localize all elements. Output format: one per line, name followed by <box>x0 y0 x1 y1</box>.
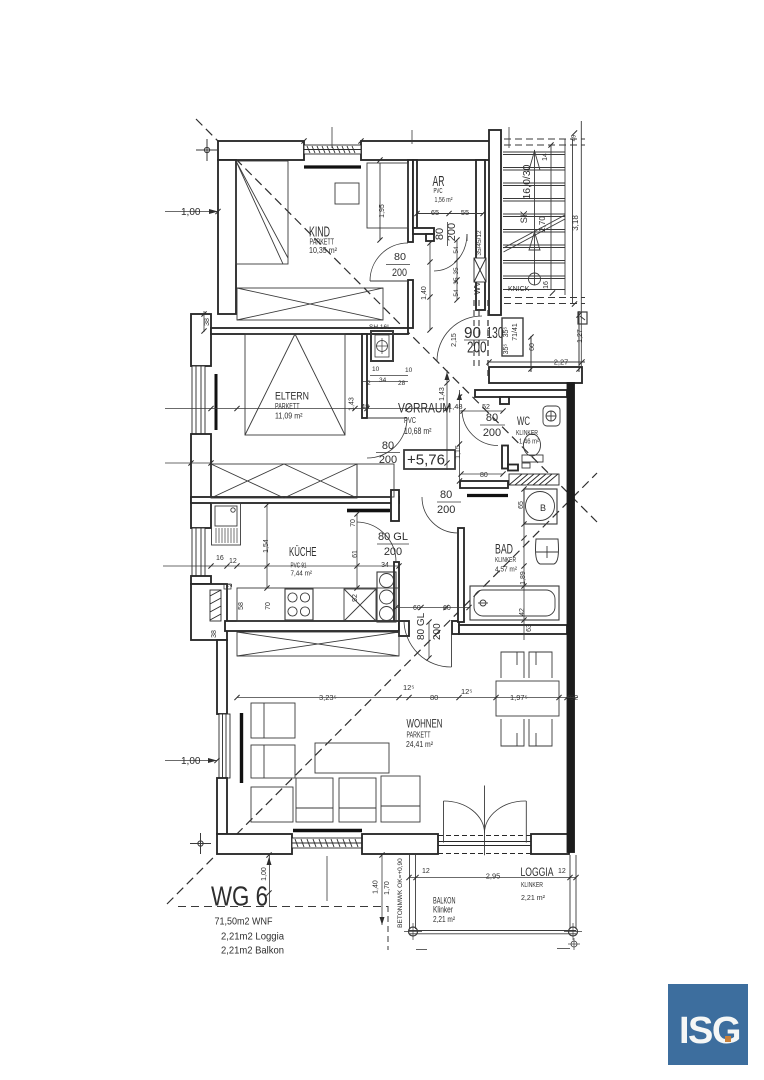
door KIND leaf <box>370 280 408 282</box>
wall BAD west <box>458 528 464 622</box>
wall WC north <box>475 390 567 397</box>
wall ELTERN east <box>362 334 367 418</box>
svg-text:12: 12 <box>422 868 430 875</box>
svg-text:16,0/30: 16,0/30 <box>521 164 533 199</box>
dashed property line under WG 6 <box>178 906 388 908</box>
stove 4 burners <box>285 589 313 620</box>
wall left exterior KIND <box>218 160 236 314</box>
armchair right <box>381 776 420 822</box>
svg-text:35⁵: 35⁵ <box>503 344 510 355</box>
svg-text:PARKETT: PARKETT <box>407 731 431 740</box>
wall WC south arm <box>508 465 518 471</box>
wall block chimney left <box>191 584 227 640</box>
overhead wall dashed (above vorraum) <box>473 300 475 367</box>
svg-text:200: 200 <box>392 267 407 279</box>
svg-text:KLINKER: KLINKER <box>495 555 516 564</box>
stair dashed top edge <box>504 138 585 140</box>
wall partition KIND/ELTERN <box>211 328 408 334</box>
coffee table <box>315 743 389 773</box>
svg-text:WV: WV <box>473 281 482 295</box>
svg-text:WG 6: WG 6 <box>211 881 268 912</box>
dim small chain below SH <box>370 375 408 377</box>
dim leader kueche left <box>163 565 399 567</box>
ISG logo orange square <box>725 1036 732 1043</box>
svg-text:SH 16L: SH 16L <box>369 324 391 331</box>
cabinet right of wardrobe <box>357 464 394 497</box>
wall entry (vorraum north) <box>489 367 582 383</box>
svg-text:10: 10 <box>405 367 413 374</box>
svg-text:12: 12 <box>558 868 566 875</box>
svg-text:38: 38 <box>204 318 211 326</box>
dim chain kueche vertical <box>266 505 268 588</box>
dim verticals 1,40 1,70 <box>381 855 383 925</box>
wall bottom exterior right of loggia door <box>531 834 569 854</box>
tall unit 3 circles <box>377 572 396 622</box>
sofa seat bottom 1 <box>296 778 333 822</box>
svg-text:PVC: PVC <box>404 415 416 425</box>
washbasin BAD <box>536 539 559 564</box>
sofa corner <box>251 787 293 822</box>
door KUECHE GL arc <box>357 522 396 562</box>
small box right <box>578 312 587 324</box>
svg-text:2,70: 2,70 <box>538 216 547 232</box>
svg-text:VORRAUM: VORRAUM <box>398 400 451 416</box>
wall KUECHE east stub <box>391 490 399 521</box>
dim line eltern horizontal long <box>165 408 447 410</box>
dim line 2,95 <box>409 877 576 879</box>
svg-text:2,21m2 Loggia: 2,21m2 Loggia <box>221 931 284 943</box>
top dim ticks <box>331 127 333 148</box>
texts VORRAUM <box>367 324 451 436</box>
nightstand KIND <box>335 183 359 204</box>
svg-text:130: 130 <box>487 325 504 342</box>
dim wc 80 bottom <box>461 473 503 475</box>
ISG logo <box>668 984 748 1065</box>
wall WOHNEN north right (BAD south) <box>459 625 567 634</box>
wall left exterior ELTERN upper <box>191 314 211 366</box>
door ELTERN arc <box>367 418 407 458</box>
walk line start circle <box>529 273 541 285</box>
wall stair west <box>489 130 501 315</box>
svg-text:1,46 m²: 1,46 m² <box>519 437 539 446</box>
wall bottom exterior left of window <box>217 834 292 854</box>
svg-text:200: 200 <box>437 504 455 516</box>
dresser KIND with X <box>237 288 383 320</box>
wall WC door south bar <box>502 446 508 469</box>
closet KIND east <box>367 163 408 228</box>
corner circle right <box>569 927 578 936</box>
washbasin WC <box>543 406 560 426</box>
svg-text:B: B <box>540 503 546 513</box>
dining table <box>496 681 559 716</box>
bold line vanity <box>467 494 508 497</box>
svg-text:WOHNEN: WOHNEN <box>407 717 443 731</box>
svg-text:3,18: 3,18 <box>571 215 580 231</box>
window KUECHE left wall <box>192 528 205 576</box>
svg-text:200: 200 <box>432 623 443 640</box>
svg-text:92: 92 <box>352 594 359 602</box>
wall KUECHE/WOHNEN (wohnen north left) <box>225 621 399 631</box>
wall WC door stub <box>500 397 509 404</box>
svg-text:60: 60 <box>529 343 536 351</box>
dim 1,00 top left <box>165 211 218 213</box>
svg-text:34: 34 <box>381 562 389 569</box>
texts BAD <box>437 489 546 632</box>
entry door panel 71/41 <box>502 318 523 356</box>
svg-text:52: 52 <box>482 404 490 411</box>
dim vertical 1,00 bottom left <box>269 855 271 907</box>
texts KIND <box>309 204 410 279</box>
svg-text:Klinker: Klinker <box>433 905 453 915</box>
svg-text:LOGGIA: LOGGIA <box>521 867 554 879</box>
svg-text:1,40: 1,40 <box>421 286 428 300</box>
svg-text:12⁵: 12⁵ <box>461 687 472 696</box>
door AR arc <box>434 234 467 271</box>
SH box <box>371 331 393 361</box>
svg-text:4,57 m²: 4,57 m² <box>495 565 517 574</box>
svg-text:1,54: 1,54 <box>263 539 270 553</box>
door WOHNEN arc <box>404 620 452 667</box>
svg-text:2,15: 2,15 <box>451 333 458 347</box>
curtain bold line ELTERN window <box>215 374 218 430</box>
wall left exterior WOHNEN upper <box>217 640 227 714</box>
svg-text:PVC: PVC <box>434 188 443 195</box>
svg-text:KLINKER: KLINKER <box>521 882 543 889</box>
curtain bold line below KIND window <box>304 165 361 168</box>
door BAD arc <box>422 497 458 533</box>
entry door leaf dashed <box>487 300 489 380</box>
svg-text:10,35 m²: 10,35 m² <box>309 246 337 255</box>
svg-text:1,70: 1,70 <box>384 881 391 895</box>
wall left exterior below kitchen window <box>191 576 211 584</box>
door KIND arc <box>370 243 408 281</box>
svg-text:1,89: 1,89 <box>520 571 527 585</box>
wall AR west <box>413 160 417 228</box>
curtain bold line above WOHNEN window <box>293 829 362 832</box>
dim line 60-60 above counter <box>396 607 469 609</box>
svg-text:63: 63 <box>526 624 533 632</box>
balcony bottom edge <box>409 930 576 932</box>
dim arrowheads <box>208 209 462 865</box>
svg-text:200: 200 <box>467 340 487 357</box>
bathtub <box>470 586 559 620</box>
svg-text:7,44 m²: 7,44 m² <box>291 569 313 578</box>
svg-text:70: 70 <box>265 602 272 610</box>
svg-text:200: 200 <box>379 454 397 466</box>
svg-text:80: 80 <box>440 489 452 501</box>
svg-text:KÜCHE: KÜCHE <box>289 544 317 559</box>
svg-text:1,27: 1,27 <box>577 329 584 343</box>
dim chain vertical right of AR door <box>456 240 458 300</box>
dim 1,00 bottom left <box>165 760 217 762</box>
window sill bottom (WOHNEN window) <box>292 838 362 848</box>
wall AR south left stub <box>413 228 434 234</box>
dim line 2,27 horizontal <box>489 361 585 363</box>
wall AR/stair east <box>476 160 485 310</box>
texts AR <box>431 173 483 297</box>
svg-text:38: 38 <box>211 630 218 638</box>
stair slope double line SK <box>504 215 566 248</box>
dim chain vorraum vertical <box>446 370 448 470</box>
svg-text:1,15: 1,15 <box>455 445 462 459</box>
dim chain bad vertical <box>523 489 525 640</box>
washing machine B <box>524 489 557 524</box>
wall KIND east upper <box>408 160 413 242</box>
chimney hatched rect <box>210 590 221 621</box>
svg-text:16: 16 <box>216 555 224 562</box>
dim line 2,70 <box>550 145 552 289</box>
texts KUECHE <box>211 519 451 638</box>
dim line KIND vertical <box>379 163 381 240</box>
svg-text:35: 35 <box>453 267 460 275</box>
svg-text:2,21 m²: 2,21 m² <box>521 893 545 902</box>
svg-text:16: 16 <box>543 281 550 289</box>
svg-text:35/45/12: 35/45/12 <box>476 230 483 256</box>
cabinet with X (dishwasher) <box>344 589 376 621</box>
diagonal section line bottom-left to crossing <box>167 473 597 904</box>
svg-text:2,27: 2,27 <box>554 358 569 367</box>
corner marker circle bottom-left <box>198 841 203 846</box>
texts LOGGIA <box>373 858 566 928</box>
stair dashed bottom edge <box>504 297 585 299</box>
bold line pass-through top right <box>347 509 389 512</box>
walk line arrow upper <box>529 151 540 170</box>
curtain bold line WOHNEN left window <box>240 713 243 783</box>
sofa seat bottom 2 <box>339 778 376 822</box>
wall bottom exterior between window and door <box>362 834 438 854</box>
dimension ticks <box>188 130 584 895</box>
dim chain vertical 1,40 <box>429 240 431 330</box>
wall top exterior left of window <box>218 141 304 160</box>
window ELTERN left wall <box>192 366 205 434</box>
svg-text:10,68 m²: 10,68 m² <box>404 426 432 436</box>
door AR leaf <box>466 234 468 241</box>
svg-text:24,41 m²: 24,41 m² <box>406 740 433 749</box>
sofa seat top <box>251 703 295 738</box>
texts ELTERN <box>275 387 463 466</box>
stair texts <box>508 134 580 293</box>
svg-text:42: 42 <box>519 608 526 616</box>
svg-text:200: 200 <box>384 546 402 558</box>
wall KUECHE east lower <box>394 562 399 632</box>
dim line AR horizontal <box>417 213 483 215</box>
jamb stub kueche door <box>399 621 409 636</box>
svg-text:54: 54 <box>453 246 460 254</box>
corner marker circle top-left <box>204 147 209 152</box>
svg-text:71,50m2 WNF: 71,50m2 WNF <box>215 916 273 928</box>
svg-text:80 GL: 80 GL <box>416 612 427 640</box>
sink unit <box>212 503 241 545</box>
stair walk line <box>534 150 536 285</box>
shaft hatched WC/BAD <box>509 474 559 485</box>
stair outline right <box>564 139 566 295</box>
svg-text:2,21 m²: 2,21 m² <box>433 915 455 924</box>
step wall left <box>224 584 231 589</box>
dim line 3,18 <box>572 139 574 304</box>
small cross below right <box>571 941 577 947</box>
svg-text:10: 10 <box>372 366 380 373</box>
svg-text:14: 14 <box>542 153 549 161</box>
svg-text:80: 80 <box>480 472 488 479</box>
texts WC <box>455 404 539 479</box>
french door right leaf <box>525 801 527 843</box>
shaft WV box <box>474 258 486 282</box>
wall ELTERN/KUECHE (kitchen north) <box>191 497 399 503</box>
svg-text:2,21m2 Balkon: 2,21m2 Balkon <box>221 945 284 957</box>
bold line pass kitchen <box>347 509 390 512</box>
vestibule texts <box>451 323 584 366</box>
dim 38 step <box>203 311 205 332</box>
walk line arrow mid <box>529 232 540 250</box>
svg-text:200: 200 <box>483 427 501 439</box>
svg-text:1,56 m²: 1,56 m² <box>435 195 453 204</box>
chair bottom 1 <box>501 719 524 746</box>
svg-text:80: 80 <box>486 412 498 424</box>
svg-text:80 GL: 80 GL <box>378 531 408 543</box>
svg-text:BETONMWK OK=+0,90: BETONMWK OK=+0,90 <box>397 858 404 928</box>
svg-text:+5,76: +5,76 <box>407 452 445 469</box>
svg-text:KNICK: KNICK <box>508 286 530 293</box>
svg-text:34: 34 <box>379 377 387 384</box>
door ELTERN leaf <box>367 417 407 419</box>
chair top 2 <box>529 652 552 678</box>
stair treads <box>503 152 565 290</box>
corner circle left <box>409 927 418 936</box>
svg-text:ELTERN: ELTERN <box>275 391 309 403</box>
svg-text:61: 61 <box>352 550 359 558</box>
svg-text:1,00: 1,00 <box>261 867 268 881</box>
svg-text:54: 54 <box>453 289 460 297</box>
svg-text:70: 70 <box>350 519 357 527</box>
dim line 1,27 vertical <box>578 311 580 372</box>
door WOHNEN leaf <box>451 620 453 667</box>
balcony right post <box>569 855 571 929</box>
wall WC south <box>460 481 508 488</box>
chair top 1 <box>501 652 524 678</box>
svg-text:WC: WC <box>517 414 530 428</box>
svg-text:1,00: 1,00 <box>181 207 201 218</box>
dim line wohnen horizontal <box>237 697 578 699</box>
texts WOHNEN <box>319 612 578 749</box>
svg-text:35⁵: 35⁵ <box>503 327 510 338</box>
svg-text:1,00: 1,00 <box>181 756 201 767</box>
window sill top (KIND window) <box>304 145 361 154</box>
door WC arc <box>462 410 498 446</box>
window WOHNEN left wall <box>219 714 230 778</box>
svg-text:80: 80 <box>394 251 406 263</box>
wall left exterior WOHNEN lower <box>217 778 227 834</box>
svg-text:1,40: 1,40 <box>373 880 380 894</box>
diagonal section line top-left to crossing <box>196 119 597 522</box>
svg-text:11,09 m²: 11,09 m² <box>275 412 303 421</box>
svg-text:2: 2 <box>367 380 371 387</box>
wall KIND east stub lower <box>408 280 413 328</box>
bed ELTERN <box>245 334 345 435</box>
balcony left post <box>409 855 411 929</box>
sofa seat mid <box>251 745 295 778</box>
dim leader eltern left short <box>165 462 211 464</box>
sideboard long with X <box>237 632 399 656</box>
chair bottom 2 <box>529 719 552 746</box>
wall left exterior between windows <box>191 434 211 528</box>
svg-text:2,95: 2,95 <box>486 872 501 881</box>
counter row bottom <box>237 588 399 621</box>
door sill loggia door <box>438 836 531 854</box>
wall party east (black) <box>568 383 575 852</box>
svg-text:65: 65 <box>431 208 439 217</box>
french door left leaf <box>443 801 445 843</box>
svg-text:12: 12 <box>229 558 237 565</box>
svg-text:12⁵: 12⁵ <box>403 683 414 692</box>
svg-text:71/41: 71/41 <box>512 323 519 341</box>
svg-text:28: 28 <box>398 380 406 387</box>
svg-text:58: 58 <box>238 602 245 610</box>
level box +5,76 <box>404 450 455 469</box>
svg-text:SK: SK <box>519 210 530 223</box>
entry door swing arc <box>437 316 482 361</box>
WG 6 title <box>211 881 284 957</box>
toilet WC <box>524 434 541 456</box>
svg-text:55: 55 <box>461 208 469 217</box>
wardrobe KIND tall <box>236 161 288 264</box>
svg-text:80: 80 <box>382 440 394 452</box>
wardrobe row ELTERN with X <box>211 464 357 498</box>
wall top exterior right of window <box>361 141 490 160</box>
french door center line <box>484 786 486 856</box>
svg-text:PARKETT: PARKETT <box>275 402 300 411</box>
dim line 60 vertical <box>530 336 532 372</box>
dim wc 52 <box>460 410 503 412</box>
dashed contour left of balcony <box>387 906 389 950</box>
jamb stub wohnen door right <box>452 621 459 634</box>
svg-text:80: 80 <box>434 228 446 240</box>
dim chain wc vertical <box>459 390 461 481</box>
